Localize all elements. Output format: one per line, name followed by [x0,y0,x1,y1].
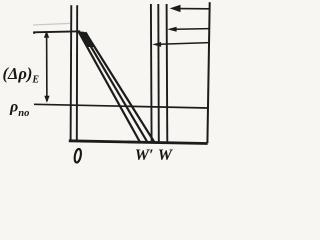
arrow 2 shaft [176,28,209,31]
arrow 2 head [167,27,176,32]
diagonal line 1 [79,32,141,143]
arrow 1 head [170,5,181,12]
diagonal bundle top fill [79,31,95,47]
node pno level line [34,104,208,108]
svg-text:W: W [158,147,174,164]
diagonal line 3 [85,32,154,142]
dimension line (Δρ)E top level [33,31,80,32]
paper background [0,0,226,168]
arrow 1 shaft [179,8,210,10]
svg-text:W′: W′ [135,147,154,164]
faint smudge above top dimension line [33,23,70,25]
arrow 3 shaft [160,43,209,45]
wire: vertical dimension shaft [46,33,48,101]
arrow 3 head [152,42,161,47]
wire: bottom axis [69,141,208,144]
wire: left double vertical line a [70,5,73,141]
wire: middle vertical line 3 [166,4,169,143]
wire: right vertical line [207,2,209,143]
arrowhead up [44,31,49,38]
diagonal line 2 [82,32,147,143]
wire: left double vertical line b [76,5,78,141]
arrowhead down [44,96,49,103]
wire: middle vertical line 2 [157,4,160,143]
dimension line left end blob [33,32,35,34]
wire: middle vertical line 1 [150,4,153,143]
label O origin [74,148,82,163]
